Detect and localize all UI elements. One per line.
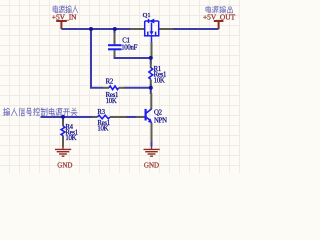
pin: C1 bottom bbox=[114, 50, 116, 57]
wire: Q2 emitter to ground bbox=[151, 141, 153, 147]
pin: Q2 collector bbox=[150, 93, 152, 109]
pin: C1 top bbox=[114, 33, 116, 44]
svg-text:100nF: 100nF bbox=[121, 45, 137, 52]
pin: Q1 drain lead bbox=[159, 28, 173, 30]
node B: R1/R2/collector bbox=[149, 86, 153, 90]
wire: R2 right to node B bbox=[124, 87, 151, 89]
wire: node B to Q2 collector bbox=[150, 88, 152, 94]
svg-text:GND: GND bbox=[57, 161, 72, 169]
pin: R1 bottom bbox=[150, 80, 152, 86]
svg-text:R2: R2 bbox=[106, 79, 114, 86]
wire: top rail left segment bbox=[41, 29, 219, 147]
node: input/R4 bbox=[61, 115, 65, 119]
node: rail/C1 branch bbox=[113, 27, 117, 31]
pin: R3 right bbox=[110, 116, 127, 118]
annotation 电源输出 bbox=[206, 6, 233, 13]
wire: R1 bottom to node B bbox=[150, 84, 152, 88]
grid background bbox=[0, 0, 240, 173]
pin leads (dark) bbox=[63, 29, 173, 147]
wire: node A to R1 top bbox=[150, 58, 152, 64]
resistor R3 (horizontal zigzag) bbox=[98, 115, 110, 119]
svg-text:+5V_OUT: +5V_OUT bbox=[203, 13, 236, 22]
node: rail/R2 branch bbox=[89, 27, 93, 31]
transistor Q2 (NPN) bbox=[146, 109, 152, 121]
ground (right, Q2 emitter) bbox=[144, 147, 160, 157]
transistor Q1 (P-MOSFET) bbox=[144, 19, 160, 42]
ground (left, R4) bbox=[55, 147, 71, 157]
power port +5V_OUT bbox=[214, 21, 224, 29]
svg-text:10K: 10K bbox=[154, 77, 165, 84]
wire: R4 top stub bbox=[62, 117, 64, 122]
pin: R1 top bbox=[150, 62, 152, 68]
svg-text:C1: C1 bbox=[122, 37, 129, 44]
annotation 输入信号控制电源开关 bbox=[3, 108, 77, 116]
power port +5V_IN bbox=[56, 21, 67, 29]
wire: left branch x=91 down and over to R2 bbox=[91, 29, 103, 88]
resistor R1 (vertical zigzag) bbox=[149, 68, 153, 80]
svg-text:10K: 10K bbox=[106, 98, 117, 105]
junction dots bbox=[61, 27, 153, 119]
capacitor C1 bbox=[108, 45, 122, 49]
pin: Q2 emitter bbox=[151, 123, 153, 142]
pin: R4 bottom bbox=[62, 136, 64, 147]
annotation 电源输入 bbox=[53, 6, 78, 13]
svg-text:10K: 10K bbox=[97, 125, 108, 132]
node A: gate/C1/R1 bbox=[149, 56, 153, 60]
pin: R2 right bbox=[119, 87, 125, 89]
wire: C1 bottom jog to R1 node bbox=[115, 57, 151, 59]
svg-text:10K: 10K bbox=[65, 135, 76, 142]
resistor R4 (vertical zigzag) bbox=[61, 126, 65, 136]
wire: C1 top stub bbox=[114, 29, 116, 34]
resistor R2 (horizontal zigzag) bbox=[109, 86, 119, 90]
svg-text:R3: R3 bbox=[97, 109, 105, 116]
pin: R3 left bbox=[92, 116, 98, 118]
wire: input signal wire bbox=[41, 116, 94, 118]
wire: R3 right to Q2 base bbox=[126, 116, 137, 118]
svg-text:GND: GND bbox=[144, 161, 159, 169]
svg-text:NPN: NPN bbox=[154, 118, 167, 125]
pin: R2 left bbox=[103, 87, 109, 89]
svg-text:Q1: Q1 bbox=[143, 12, 151, 19]
svg-text:+5V_IN: +5V_IN bbox=[52, 13, 77, 22]
pin: R4 top bbox=[62, 121, 64, 127]
wire: top rail right segment bbox=[173, 28, 219, 30]
svg-text:Q2: Q2 bbox=[154, 110, 163, 117]
pin: Q1 gate lead down bbox=[151, 42, 153, 58]
pin: Q2 base bbox=[136, 116, 145, 118]
pin: Q1 source lead bbox=[130, 28, 145, 30]
